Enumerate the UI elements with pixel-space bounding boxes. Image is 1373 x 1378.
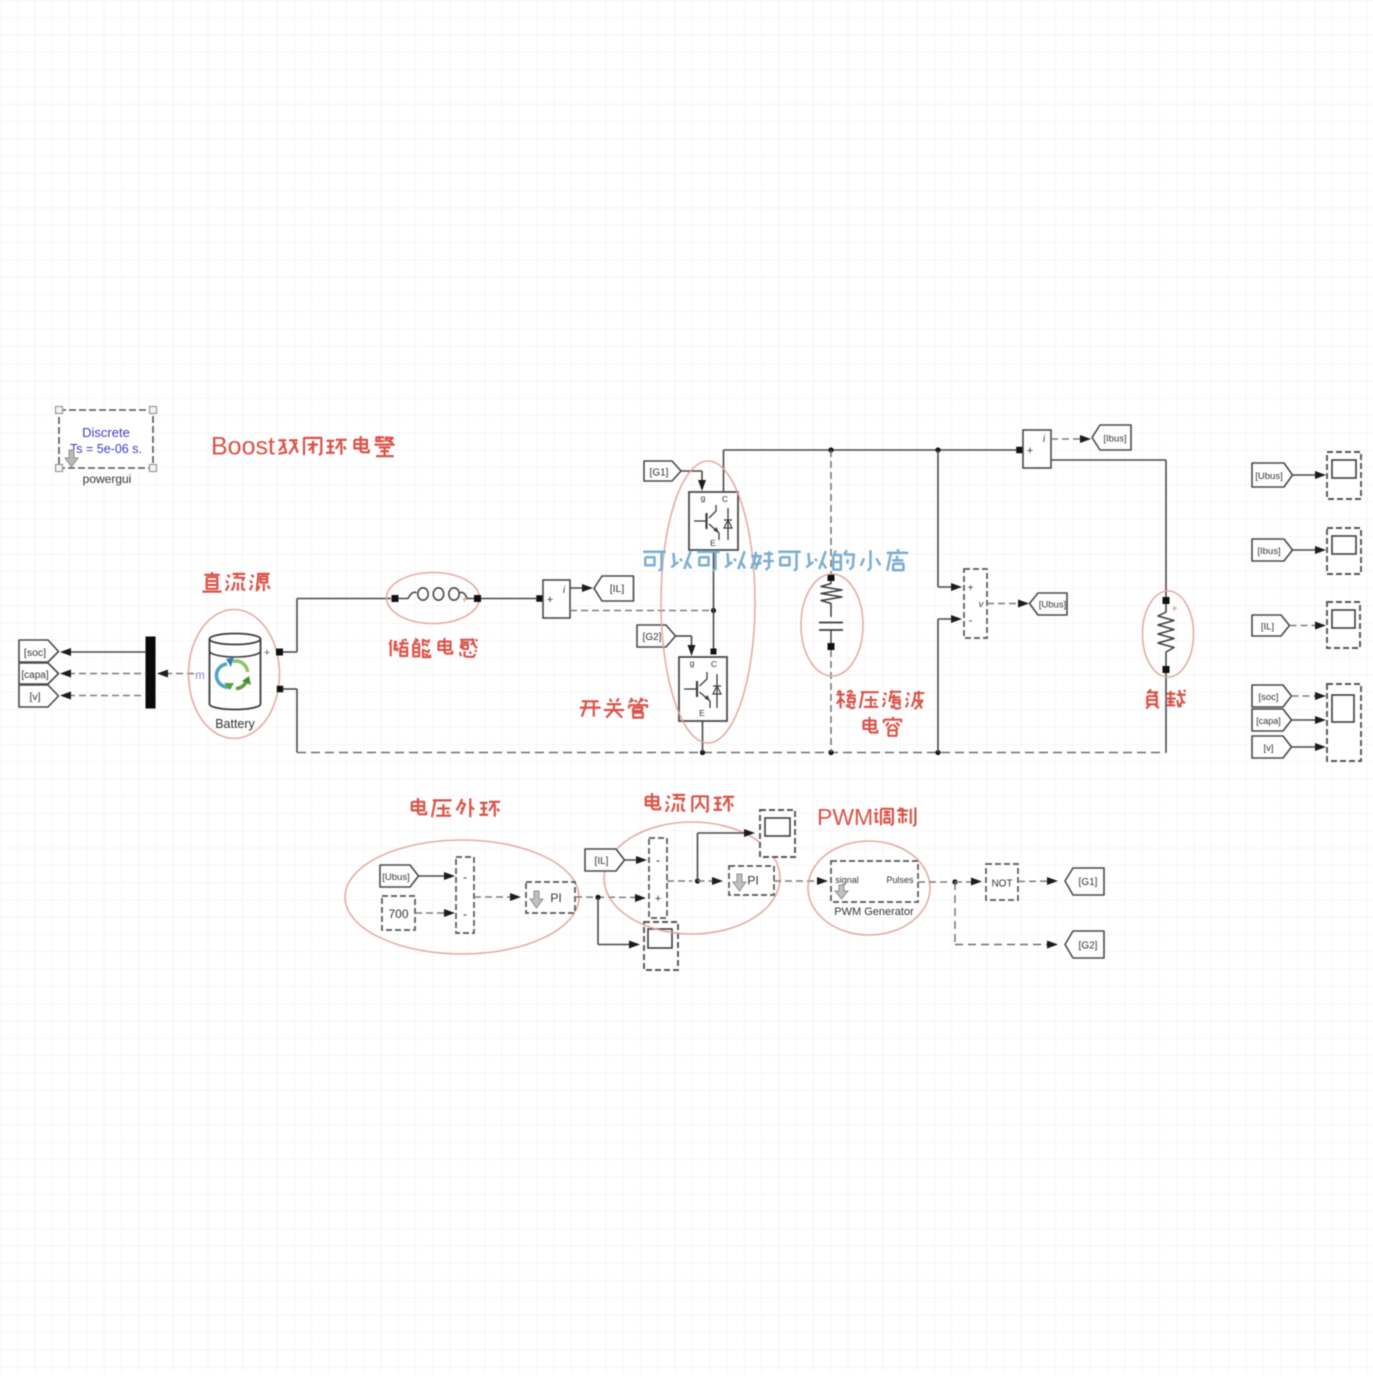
svg-text:-: - bbox=[969, 615, 973, 627]
svg-text:Discrete: Discrete bbox=[82, 425, 130, 440]
svg-text:PI: PI bbox=[747, 874, 758, 888]
svg-text:[soc]: [soc] bbox=[1258, 692, 1278, 703]
svg-text:Pulses: Pulses bbox=[886, 875, 914, 885]
svg-text:[Ibus]: [Ibus] bbox=[1257, 546, 1280, 557]
svg-text:[IL]: [IL] bbox=[1261, 621, 1274, 632]
svg-text:[Ibus]: [Ibus] bbox=[1103, 434, 1126, 445]
svg-text:[Ubus]: [Ubus] bbox=[1255, 471, 1282, 482]
svg-text:-: - bbox=[463, 870, 467, 884]
svg-text:Battery: Battery bbox=[215, 717, 255, 731]
svg-text:PWM: PWM bbox=[817, 804, 873, 830]
svg-text:-: - bbox=[656, 853, 660, 867]
svg-text:+: + bbox=[968, 583, 974, 594]
svg-text:+: + bbox=[547, 594, 553, 606]
svg-text:E: E bbox=[699, 708, 705, 718]
svg-text:[G1]: [G1] bbox=[1079, 877, 1098, 888]
svg-text:700: 700 bbox=[388, 907, 408, 921]
svg-text:[soc]: [soc] bbox=[24, 647, 46, 659]
svg-text:[Ubus]: [Ubus] bbox=[382, 872, 409, 883]
svg-text:+: + bbox=[1172, 604, 1178, 615]
svg-text:[Ubus]: [Ubus] bbox=[1039, 600, 1066, 611]
svg-text:[v]: [v] bbox=[1263, 743, 1273, 754]
svg-text:[v]: [v] bbox=[29, 691, 40, 703]
svg-text:PI: PI bbox=[550, 891, 561, 905]
svg-text:signal: signal bbox=[835, 875, 859, 885]
svg-text:+: + bbox=[462, 595, 468, 606]
svg-text:[G2]: [G2] bbox=[643, 632, 662, 643]
svg-text:[G1]: [G1] bbox=[650, 468, 669, 479]
svg-text:[IL]: [IL] bbox=[595, 856, 609, 867]
svg-text:[capa]: [capa] bbox=[21, 670, 48, 681]
svg-text:+: + bbox=[655, 893, 661, 905]
svg-text:Ts = 5e-06 s.: Ts = 5e-06 s. bbox=[70, 442, 142, 456]
svg-text:g: g bbox=[701, 493, 706, 503]
svg-text:-: - bbox=[463, 907, 467, 921]
svg-text:E: E bbox=[710, 538, 716, 548]
svg-text:C: C bbox=[722, 494, 728, 504]
svg-text:PWM Generator: PWM Generator bbox=[834, 906, 914, 918]
svg-text:[capa]: [capa] bbox=[1256, 716, 1281, 726]
svg-text:[G2]: [G2] bbox=[1079, 941, 1098, 952]
svg-text:Boost: Boost bbox=[211, 433, 275, 461]
svg-text:+: + bbox=[264, 647, 270, 659]
svg-text:C: C bbox=[711, 659, 717, 669]
svg-text:[IL]: [IL] bbox=[610, 583, 625, 595]
svg-text:powergui: powergui bbox=[83, 472, 132, 486]
svg-text:g: g bbox=[690, 658, 695, 668]
svg-text:+: + bbox=[1027, 445, 1033, 457]
svg-text:NOT: NOT bbox=[991, 879, 1012, 890]
svg-text:m: m bbox=[195, 670, 205, 682]
